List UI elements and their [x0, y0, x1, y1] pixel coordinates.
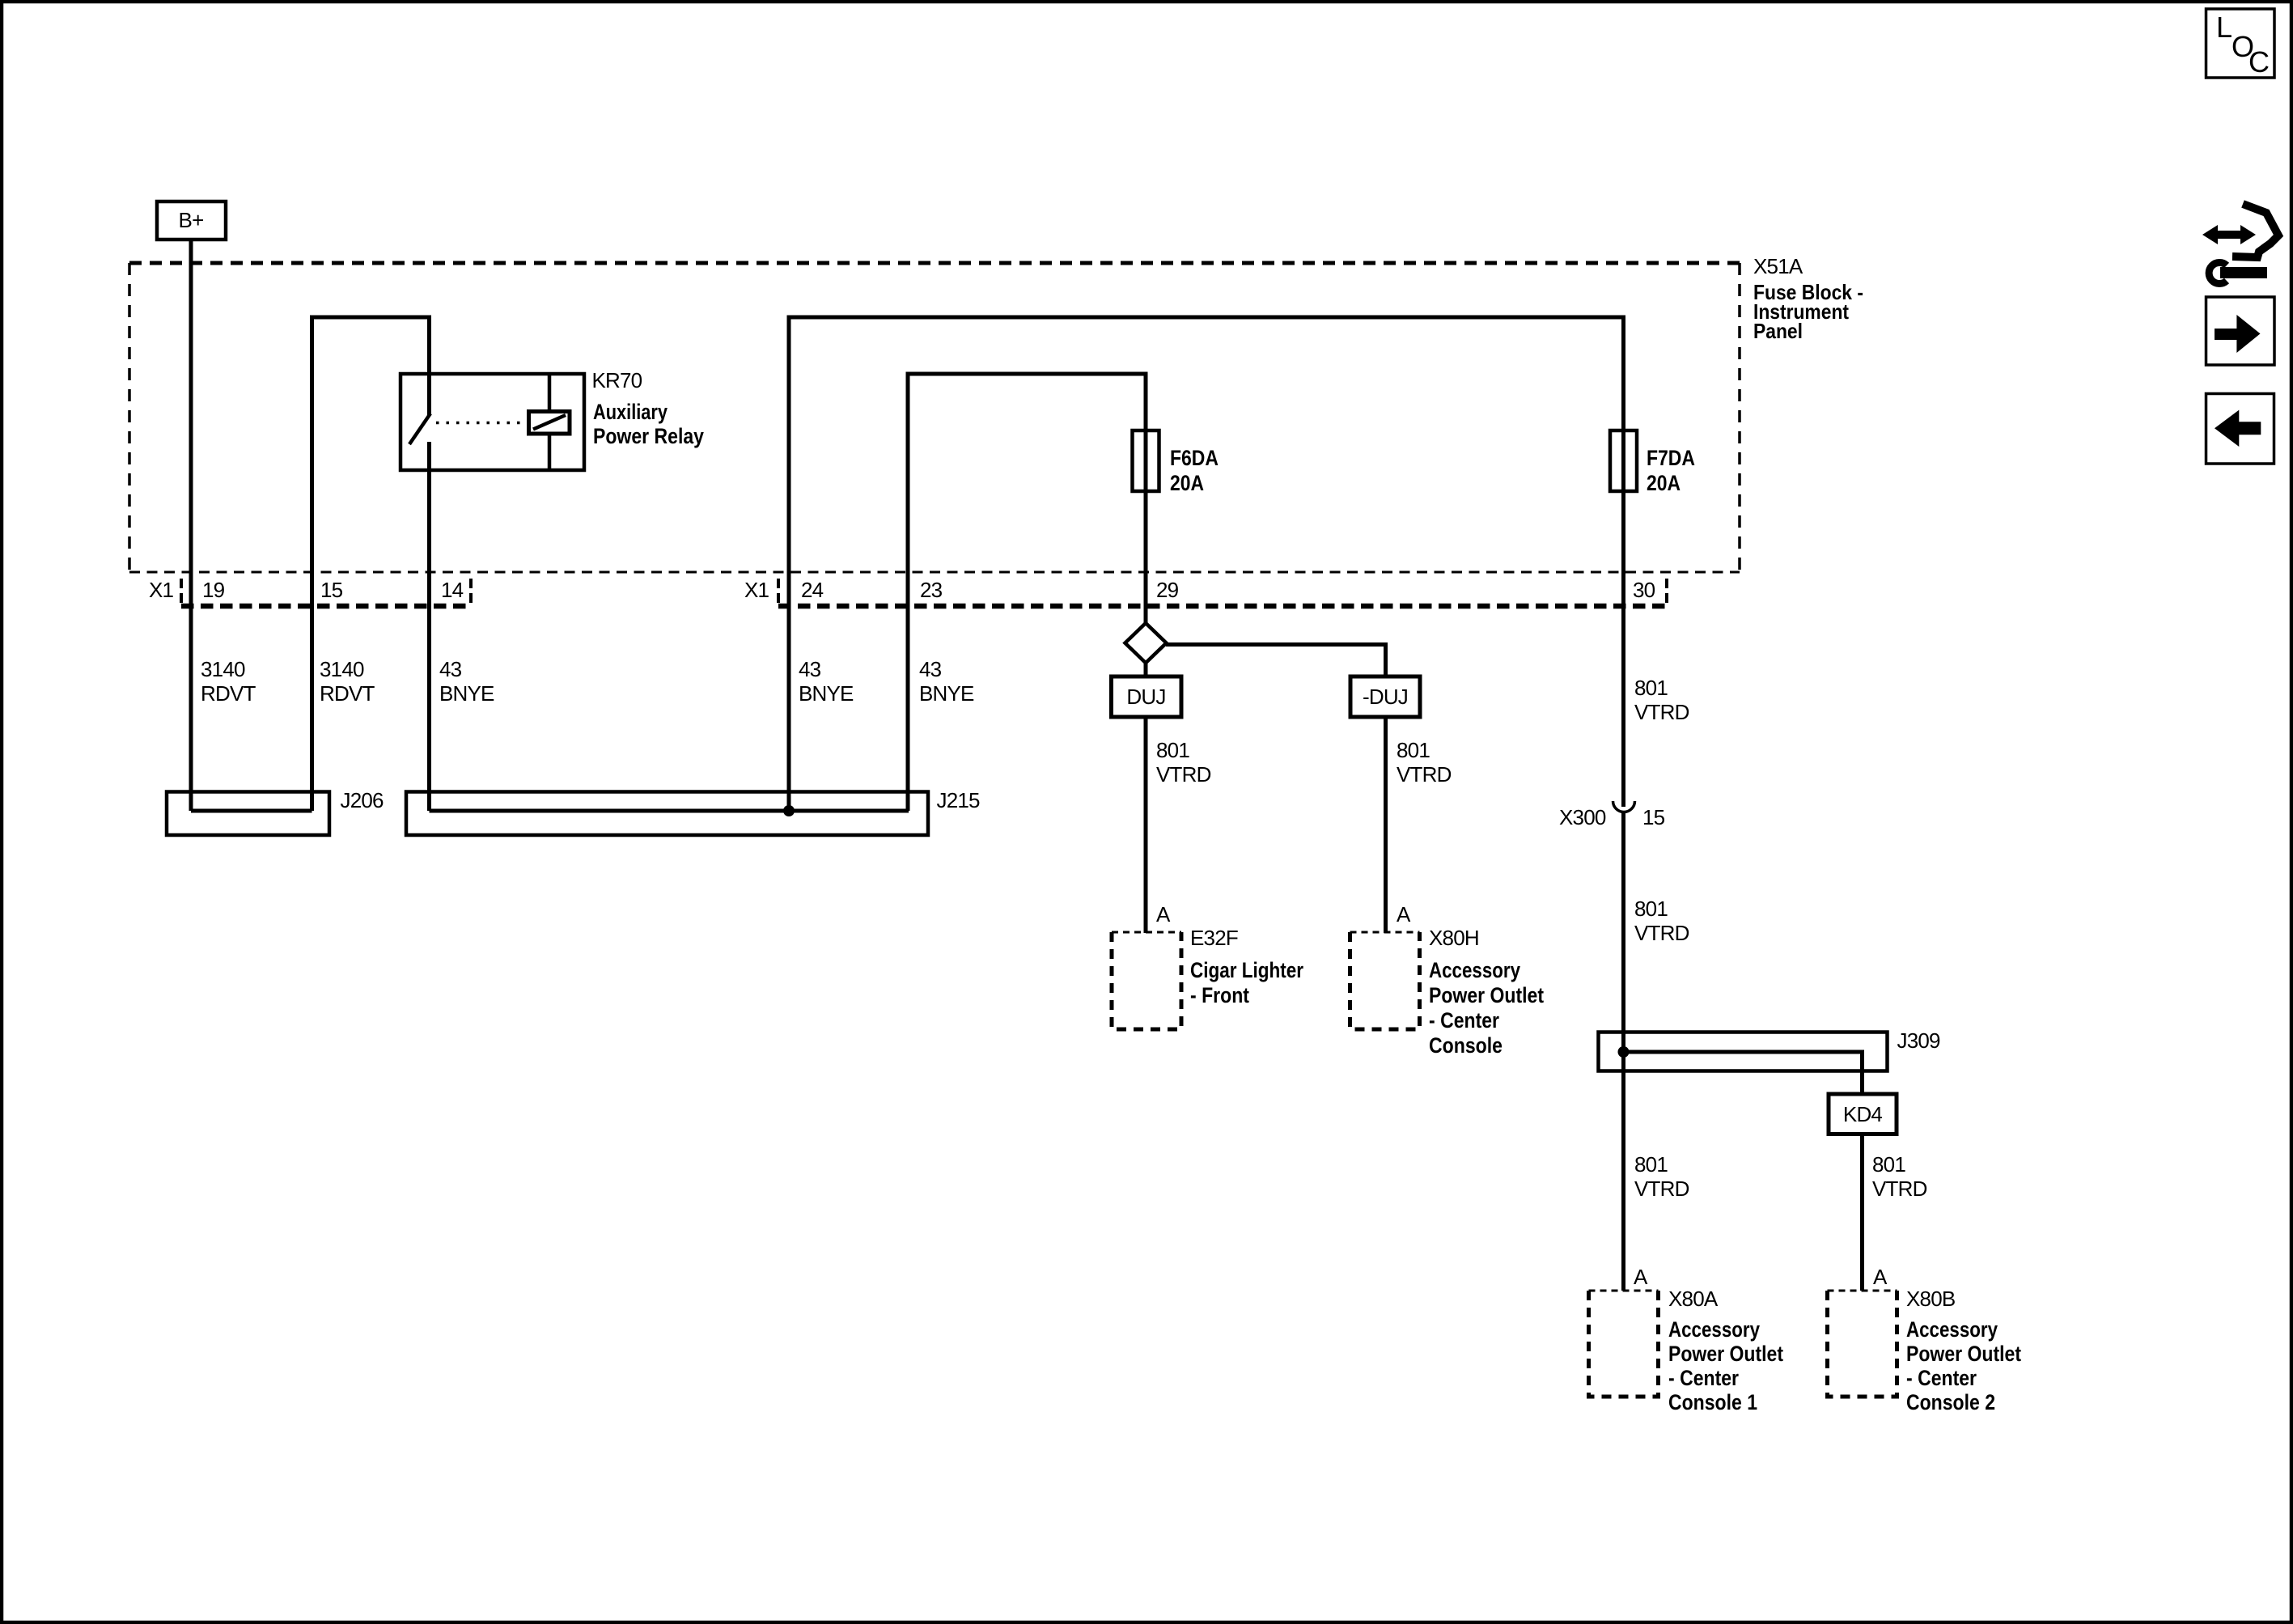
relay KR70 coil box [529, 412, 570, 435]
svg-text:BNYE: BNYE [439, 681, 494, 706]
routing squiggle icon double arrow [2202, 225, 2256, 244]
svg-text:- Center: - Center [1668, 1366, 1739, 1390]
arrow-left glyph [2215, 410, 2261, 447]
svg-text:30: 30 [1633, 578, 1655, 602]
svg-text:L: L [2216, 11, 2232, 44]
wire J215 up pin 23 across to fuse F6DA down to splice diamond (circuit 43/801) [908, 374, 1146, 811]
splice pack J206 [167, 792, 329, 836]
svg-text:801: 801 [1397, 738, 1430, 762]
accessory power outlet X80A dashed box [1589, 1290, 1659, 1292]
svg-text:15: 15 [1642, 805, 1665, 829]
svg-text:801: 801 [1872, 1152, 1905, 1177]
fuse block X51A dashed outline top edge [129, 261, 1740, 265]
wire X300 to J309 to X80A (circuit 801 VTRD) [1621, 812, 1625, 1291]
wire J215 up pin 24 across to fuse F7DA down through pin 30 (circuit 43/801) [789, 317, 1624, 811]
fuse block X51A dashed outline right edge [1738, 263, 1741, 571]
svg-text:-DUJ: -DUJ [1363, 685, 1408, 709]
svg-text:J206: J206 [341, 788, 384, 812]
svg-text:Auxiliary: Auxiliary [593, 400, 668, 424]
relay KR70 coil lead lower [548, 433, 552, 470]
svg-text:Accessory: Accessory [1906, 1317, 1998, 1342]
arrow-right glyph [2215, 315, 2261, 353]
svg-text:Console 1: Console 1 [1668, 1390, 1757, 1414]
svg-text:A: A [1634, 1265, 1648, 1289]
svg-text:B+: B+ [179, 208, 204, 232]
wire DUJ to E32F (circuit 801 VTRD) [1144, 717, 1148, 933]
svg-text:43: 43 [799, 657, 821, 681]
svg-text:C: C [2248, 45, 2270, 78]
svg-text:801: 801 [1634, 676, 1668, 700]
routing squiggle icon handle bar [2220, 267, 2267, 278]
svg-text:Accessory: Accessory [1429, 958, 1520, 982]
svg-text:Power Outlet: Power Outlet [1429, 983, 1544, 1007]
svg-text:A: A [1397, 902, 1411, 926]
svg-text:VTRD: VTRD [1872, 1177, 1927, 1201]
connector X1 left segment (pins 19 15 14) [181, 604, 473, 609]
svg-text:BNYE: BNYE [799, 681, 854, 706]
svg-text:KR70: KR70 [592, 368, 642, 392]
svg-text:14: 14 [441, 578, 464, 602]
svg-text:Power Outlet: Power Outlet [1668, 1342, 1783, 1366]
svg-text:Power Outlet: Power Outlet [1906, 1342, 2021, 1366]
svg-text:VTRD: VTRD [1397, 762, 1452, 787]
svg-text:VTRD: VTRD [1634, 1177, 1689, 1201]
junction dot J309 [1618, 1046, 1630, 1058]
svg-text:E32F: E32F [1190, 926, 1238, 950]
svg-text:43: 43 [919, 657, 942, 681]
svg-text:23: 23 [920, 578, 943, 602]
svg-text:3140: 3140 [320, 657, 364, 681]
relay KR70 actuator dotted line [436, 422, 527, 425]
relay KR70 switch arm [409, 413, 430, 444]
junction dot J215 [783, 805, 795, 816]
svg-text:19: 19 [202, 578, 225, 602]
svg-text:3140: 3140 [201, 657, 245, 681]
svg-text:Panel: Panel [1753, 319, 1803, 343]
svg-text:X80H: X80H [1429, 926, 1479, 950]
routing squiggle icon hook [2209, 263, 2227, 284]
fuse block X51A dashed outline left edge [128, 263, 131, 571]
svg-text:Cigar Lighter: Cigar Lighter [1190, 958, 1303, 982]
svg-text:15: 15 [320, 578, 343, 602]
svg-text:J215: J215 [937, 788, 981, 812]
svg-text:KD4: KD4 [1843, 1102, 1883, 1126]
svg-text:X80B: X80B [1906, 1287, 1955, 1311]
svg-text:X51A: X51A [1753, 254, 1803, 278]
splice -DUJ box [1350, 676, 1420, 717]
relay KR70 coil lead upper [548, 374, 552, 412]
connector X1 left bracket tick [180, 579, 183, 607]
accessory power outlet X80B dashed box [1828, 1290, 1897, 1292]
svg-text:Console: Console [1429, 1033, 1503, 1058]
connector X1 right segment end tick [1665, 579, 1668, 607]
svg-text:20A: 20A [1170, 471, 1204, 495]
accessory power outlet X80H dashed box [1350, 931, 1420, 934]
svg-text:Accessory: Accessory [1668, 1317, 1760, 1342]
wire -DUJ to X80H (circuit 801 VTRD) [1384, 717, 1388, 933]
svg-text:- Front: - Front [1190, 983, 1249, 1007]
fuse block X51A dashed outline bottom edge [129, 571, 1740, 574]
svg-text:801: 801 [1156, 738, 1189, 762]
connector X1 right bracket tick [777, 579, 780, 607]
svg-text:RDVT: RDVT [201, 681, 256, 706]
svg-text:F7DA: F7DA [1647, 446, 1695, 470]
svg-text:X1: X1 [149, 578, 174, 602]
wire J206 up through pin 15 over to relay (circuit 3140 RDVT) [312, 317, 430, 811]
svg-text:801: 801 [1634, 897, 1668, 921]
option box KD4 [1829, 1094, 1897, 1134]
routing squiggle icon zigzag [2232, 204, 2278, 257]
svg-text:X1: X1 [744, 578, 769, 602]
svg-text:801: 801 [1634, 1152, 1668, 1177]
splice pack J215 [406, 792, 928, 836]
wire KD4 to X80B (circuit 801 VTRD) [1860, 1134, 1864, 1291]
svg-text:F6DA: F6DA [1170, 446, 1219, 470]
svg-text:X80A: X80A [1668, 1287, 1719, 1311]
svg-text:A: A [1156, 902, 1171, 926]
wire relay output through pin 14 to J215 (circuit 43 BNYE) [427, 442, 431, 811]
arrow-left legend box [2206, 394, 2274, 464]
wire splice diamond right to -DUJ [1166, 645, 1386, 679]
svg-text:24: 24 [801, 578, 824, 602]
svg-text:J309: J309 [1897, 1028, 1941, 1053]
svg-text:Console 2: Console 2 [1906, 1390, 1995, 1414]
svg-text:20A: 20A [1647, 471, 1681, 495]
connector X1 left segment end tick [469, 579, 473, 607]
relay KR70 coil diagonal [533, 415, 566, 430]
svg-text:29: 29 [1156, 578, 1179, 602]
LOC legend box [2206, 9, 2275, 78]
svg-text:DUJ: DUJ [1126, 685, 1165, 709]
svg-text:RDVT: RDVT [320, 681, 375, 706]
power feed B+ box [157, 201, 226, 240]
splice DUJ box [1112, 676, 1182, 717]
svg-text:A: A [1873, 1265, 1888, 1289]
wire B+ to J206 (circuit 3140 RDVT pin 19) [189, 240, 193, 811]
svg-text:- Center: - Center [1906, 1366, 1977, 1390]
wire splice diamond to DUJ [1144, 663, 1148, 678]
splice diamond node [1125, 623, 1167, 663]
svg-text:VTRD: VTRD [1156, 762, 1211, 787]
arrow-right legend box [2206, 297, 2275, 365]
fuse F6DA 20A [1133, 430, 1159, 491]
svg-text:VTRD: VTRD [1634, 700, 1689, 724]
svg-text:43: 43 [439, 657, 462, 681]
svg-text:VTRD: VTRD [1634, 921, 1689, 945]
svg-text:X300: X300 [1559, 805, 1606, 829]
connector X1 right segment (pins 24 23 29 30) [778, 604, 1668, 609]
inline connector X300 pin 15 arc [1613, 801, 1635, 812]
fuse F7DA 20A [1610, 430, 1637, 491]
relay KR70 box [401, 374, 584, 470]
svg-text:Power Relay: Power Relay [593, 424, 704, 448]
cigar lighter E32F dashed box [1112, 931, 1181, 934]
wire J309 branch to KD4 [1624, 1052, 1863, 1094]
splice pack J309 [1599, 1032, 1888, 1071]
svg-text:- Center: - Center [1429, 1008, 1499, 1032]
svg-text:BNYE: BNYE [919, 681, 974, 706]
